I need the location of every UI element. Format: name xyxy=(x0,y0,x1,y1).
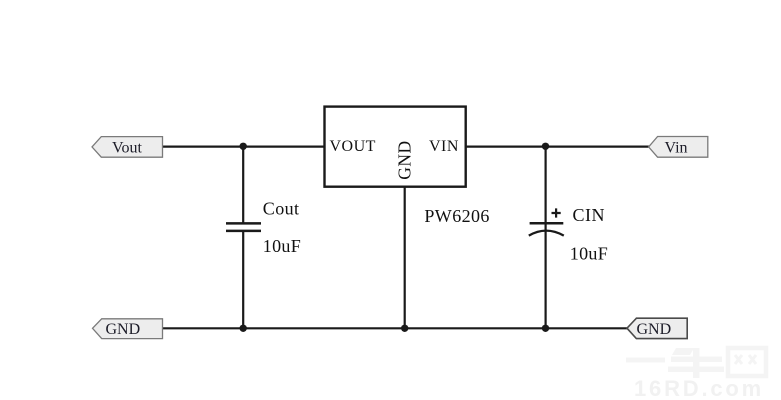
svg-text:16RD.com: 16RD.com xyxy=(634,376,764,400)
svg-text:PW6206: PW6206 xyxy=(424,206,489,226)
watermark 一 bar xyxy=(626,358,665,363)
svg-text:10uF: 10uF xyxy=(570,244,608,264)
capacitor CIN top plate xyxy=(530,222,564,225)
op-amp U1 PW6206 regulator body xyxy=(325,107,466,187)
svg-text:CIN: CIN xyxy=(573,205,606,225)
port flag Vin xyxy=(649,137,708,158)
port flag Vout xyxy=(92,137,163,158)
wire Vout flag to VOUT pin xyxy=(162,146,325,148)
node junction Cout/GND bus xyxy=(240,325,247,332)
node junction Vout/Cout xyxy=(240,143,247,150)
svg-text:VOUT: VOUT xyxy=(330,138,376,155)
wire CIN lower xyxy=(544,231,546,330)
svg-text:VIN: VIN xyxy=(429,138,459,155)
node junction IC GND/bus xyxy=(401,325,408,332)
svg-text:GND: GND xyxy=(637,321,672,338)
node junction CIN/GND bus xyxy=(542,325,549,332)
svg-text:Vout: Vout xyxy=(112,140,142,157)
capacitor Cout plates xyxy=(226,222,261,225)
wire Cout lower xyxy=(242,231,244,330)
svg-text:10uF: 10uF xyxy=(263,236,301,256)
wire CIN upper xyxy=(544,146,546,231)
port flag GND left xyxy=(93,319,163,339)
watermark 牛 glyph xyxy=(668,348,724,378)
wire VIN pin to Vin flag xyxy=(465,146,649,148)
port flag GND right xyxy=(627,318,687,338)
plus polarity mark xyxy=(552,208,561,217)
wire GND pin to bus xyxy=(404,186,406,329)
svg-text:GND: GND xyxy=(395,140,415,179)
svg-text:Cout: Cout xyxy=(263,198,300,218)
watermark 网 glyph xyxy=(728,348,766,376)
svg-text:GND: GND xyxy=(106,321,141,338)
capacitor CIN curved plate xyxy=(529,231,564,236)
svg-text:Vin: Vin xyxy=(665,140,688,157)
wire ground bus xyxy=(162,327,628,329)
wire Cout upper xyxy=(242,146,244,224)
node junction Vin/CIN xyxy=(542,143,549,150)
